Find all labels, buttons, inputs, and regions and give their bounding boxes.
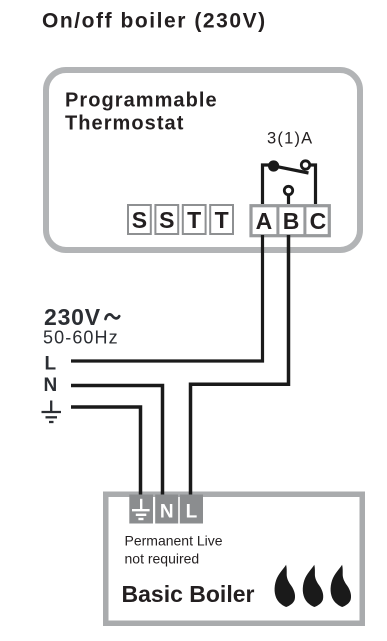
boiler earth terminal — [129, 495, 153, 524]
svg-text:not required: not required — [125, 550, 200, 566]
wire: neutral supply to boiler N — [71, 386, 163, 501]
boiler live terminal L — [180, 495, 203, 524]
boiler enclosure box — [106, 494, 363, 623]
wire: earth supply to boiler earth — [71, 407, 141, 500]
svg-text:A: A — [256, 208, 273, 234]
flame icon 2 — [303, 565, 323, 607]
svg-text:Programmable: Programmable — [65, 90, 218, 112]
svg-text:C: C — [310, 208, 327, 234]
boiler neutral terminal N — [155, 495, 178, 524]
note: Permanent Live not required — [125, 533, 223, 567]
svg-text:3(1)A: 3(1)A — [267, 130, 313, 148]
switch contact over C (open circle) — [301, 161, 309, 169]
svg-text:L: L — [186, 501, 198, 522]
svg-text:Thermostat: Thermostat — [65, 113, 184, 135]
svg-text:230V: 230V — [44, 304, 101, 330]
flame icon 3 — [331, 565, 351, 607]
wire: switch contact to terminal C — [310, 165, 316, 204]
label: Programmable Thermostat — [65, 90, 218, 135]
wire: live supply to thermostat terminal A — [71, 235, 263, 361]
svg-text:N: N — [160, 501, 174, 522]
wire: thermostat terminal B to boiler L (switched live) — [191, 235, 289, 500]
svg-text:50-60Hz: 50-60Hz — [43, 328, 119, 348]
wire: terminal A up to switch common — [263, 165, 274, 204]
switch lever — [273, 166, 309, 173]
svg-text:Basic Boiler: Basic Boiler — [122, 581, 255, 607]
svg-text:T: T — [187, 207, 201, 233]
svg-text:L: L — [45, 354, 57, 375]
terminal block A B C — [251, 205, 329, 237]
switch contact over B (open circle) — [284, 186, 292, 194]
svg-text:T: T — [215, 207, 229, 233]
switch common contact (filled dot) — [268, 160, 279, 171]
svg-text:N: N — [44, 375, 58, 396]
wire: contact B stub to terminal B — [287, 195, 290, 204]
thermostat enclosure box — [46, 70, 360, 250]
svg-text:On/off boiler (230V): On/off boiler (230V) — [42, 10, 267, 33]
svg-text:Permanent Live: Permanent Live — [125, 533, 223, 549]
flame icon 1 — [275, 565, 295, 607]
supply earth symbol — [42, 401, 62, 423]
svg-text:B: B — [283, 208, 300, 234]
svg-text:S: S — [159, 207, 174, 233]
supply label 230V~ — [44, 304, 119, 330]
svg-text:S: S — [132, 207, 147, 233]
terminal block S S T T — [128, 205, 233, 234]
